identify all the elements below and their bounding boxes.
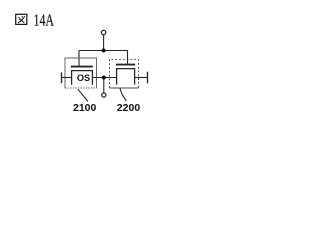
svg-text:14A: 14A: [34, 10, 55, 29]
svg-text:2100: 2100: [73, 102, 97, 114]
svg-text:2200: 2200: [117, 102, 141, 114]
svg-text:OS: OS: [77, 73, 90, 83]
